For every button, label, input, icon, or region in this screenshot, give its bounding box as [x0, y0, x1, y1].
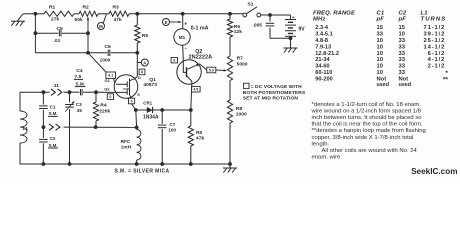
- svg-text:R3: R3: [113, 5, 120, 11]
- svg-text:C3: C3: [76, 102, 82, 107]
- svg-text:90-200: 90-200: [315, 76, 332, 82]
- svg-text:R6: R6: [234, 24, 241, 30]
- svg-text:M: M: [99, 24, 103, 29]
- svg-text:10: 10: [377, 38, 383, 44]
- svg-text:C2: C2: [399, 10, 407, 16]
- svg-text:4.5: 4.5: [193, 87, 198, 91]
- svg-text:12k: 12k: [234, 29, 242, 35]
- svg-text:D: D: [138, 76, 141, 80]
- svg-text:**: **: [443, 77, 449, 84]
- svg-text:9: 9: [173, 58, 175, 62]
- svg-text:R8: R8: [236, 106, 243, 112]
- svg-text:34-60: 34-60: [315, 64, 329, 70]
- svg-text:15: 15: [377, 25, 384, 31]
- svg-text:33: 33: [399, 70, 406, 76]
- svg-text:10: 10: [377, 70, 383, 76]
- svg-text:CR1: CR1: [143, 100, 152, 105]
- svg-text:C1: C1: [50, 104, 56, 109]
- svg-text:4.8-8: 4.8-8: [315, 38, 328, 44]
- svg-text:.005: .005: [253, 22, 263, 28]
- svg-text:33: 33: [399, 64, 406, 70]
- svg-text:enam. wire.: enam. wire.: [312, 154, 343, 160]
- svg-text:60-110: 60-110: [315, 70, 332, 76]
- svg-text:9V: 9V: [299, 26, 306, 32]
- svg-text:39-1/2: 39-1/2: [423, 32, 445, 38]
- svg-text:4.1: 4.1: [108, 74, 113, 78]
- svg-text:used: used: [399, 82, 412, 88]
- svg-text:10: 10: [377, 57, 383, 63]
- svg-text:10: 10: [377, 44, 383, 50]
- svg-text:L1: L1: [23, 126, 29, 131]
- svg-text:33: 33: [399, 51, 406, 57]
- svg-text:2.3-4: 2.3-4: [315, 25, 329, 31]
- svg-text:3.4-5.1: 3.4-5.1: [315, 32, 332, 38]
- svg-text:pF: pF: [376, 17, 385, 23]
- svg-text:33: 33: [399, 44, 406, 50]
- svg-text:5000: 5000: [237, 61, 248, 67]
- svg-text:M1: M1: [179, 35, 186, 40]
- svg-text:MHz: MHz: [313, 17, 325, 23]
- svg-text:C2: C2: [50, 136, 56, 141]
- svg-text:220k: 220k: [99, 108, 110, 114]
- svg-text:= DC VOLTAGE WITH: = DC VOLTAGE WITH: [251, 84, 302, 90]
- svg-text:pF: pF: [398, 17, 407, 23]
- svg-text:G2: G2: [104, 86, 110, 91]
- svg-text:wire wound on a 1/2-inch form: wire wound on a 1/2-inch form spaced 1/8: [311, 109, 422, 115]
- svg-text:0: 0: [109, 95, 111, 99]
- svg-text:25-1/2: 25-1/2: [423, 38, 445, 44]
- svg-text:71-1/2: 71-1/2: [423, 25, 445, 31]
- svg-text:inch between turns. It should: inch between turns. It should be placed …: [312, 115, 423, 121]
- svg-text:1N34A: 1N34A: [143, 114, 159, 120]
- svg-text:+: +: [292, 16, 295, 21]
- svg-text:All other coils are wound with: All other coils are wound with No. 24: [322, 148, 418, 154]
- svg-text:C7: C7: [169, 122, 175, 127]
- svg-text:47k: 47k: [196, 136, 204, 142]
- svg-text:S.M. = SILVER MICA: S.M. = SILVER MICA: [115, 168, 170, 174]
- svg-text:27k: 27k: [51, 17, 59, 23]
- svg-text:*denotes a 1-1/2-turn coil of: *denotes a 1-1/2-turn coil of No. 18 ena…: [312, 102, 422, 108]
- svg-text:used: used: [377, 82, 390, 88]
- svg-text:R5: R5: [196, 130, 203, 136]
- svg-text:10: 10: [377, 51, 383, 57]
- svg-text:**denotes a hairpin loop made: **denotes a hairpin loop made from flash…: [312, 128, 426, 134]
- svg-text:C6: C6: [105, 44, 112, 50]
- svg-text:C4: C4: [76, 68, 83, 74]
- svg-text:0-1 mA: 0-1 mA: [191, 26, 209, 32]
- svg-text:S1: S1: [248, 1, 254, 7]
- svg-text:21-34: 21-34: [315, 57, 330, 63]
- svg-text:C5: C5: [57, 26, 64, 32]
- svg-text:E: E: [165, 20, 168, 25]
- svg-text:R9: R9: [142, 33, 149, 39]
- svg-text:4-1/2: 4-1/2: [428, 57, 446, 63]
- svg-text:S.M.: S.M.: [49, 143, 58, 148]
- svg-text:L1: L1: [421, 10, 428, 16]
- svg-text:35: 35: [77, 108, 83, 113]
- svg-text:12.8-21.2: 12.8-21.2: [315, 51, 339, 57]
- svg-text:Q1: Q1: [149, 77, 156, 83]
- svg-text:BOTH POTENTIOMETERS: BOTH POTENTIOMETERS: [243, 90, 306, 96]
- svg-text:100: 100: [168, 127, 176, 132]
- svg-text:1000: 1000: [100, 57, 111, 63]
- svg-text:S: S: [137, 93, 140, 97]
- svg-text:10: 10: [399, 32, 405, 38]
- svg-text:50k: 50k: [75, 17, 83, 23]
- svg-text:length.: length.: [312, 141, 330, 147]
- svg-text:15: 15: [399, 25, 406, 31]
- svg-text:2-1/2: 2-1/2: [428, 64, 446, 70]
- svg-text:6-1/2: 6-1/2: [428, 51, 446, 57]
- svg-text:1mH: 1mH: [121, 144, 132, 149]
- svg-text:14-1/2: 14-1/2: [423, 44, 445, 50]
- svg-text:copper, 3/8-inch wide X 1-7/8-: copper, 3/8-inch wide X 1-7/8-inch total: [312, 135, 414, 141]
- svg-text:0: 0: [131, 99, 133, 103]
- svg-text:33: 33: [399, 57, 406, 63]
- svg-text:.01: .01: [54, 38, 61, 44]
- svg-text:SET AT MID ROTATION: SET AT MID ROTATION: [243, 96, 299, 102]
- svg-text:1000: 1000: [236, 112, 247, 118]
- svg-text:TURNS: TURNS: [421, 17, 447, 23]
- svg-text:R2: R2: [83, 5, 90, 11]
- svg-text:SeekIC.com: SeekIC.com: [411, 167, 457, 176]
- svg-text:J1: J1: [54, 83, 60, 89]
- svg-text:8: 8: [141, 70, 143, 74]
- svg-text:G1: G1: [105, 78, 111, 83]
- svg-text:R1: R1: [49, 5, 56, 11]
- svg-text:5.9: 5.9: [209, 68, 214, 72]
- svg-text:7.9-13: 7.9-13: [315, 44, 331, 50]
- svg-text:A: A: [143, 60, 146, 65]
- svg-text:R7: R7: [237, 56, 244, 62]
- svg-text:R4: R4: [100, 103, 107, 109]
- svg-text:–: –: [185, 46, 188, 51]
- svg-text:+: +: [184, 22, 187, 28]
- svg-text:S.M.: S.M.: [49, 111, 58, 116]
- svg-text:10: 10: [377, 64, 383, 70]
- svg-text:33: 33: [399, 38, 406, 44]
- svg-text:C1: C1: [377, 10, 385, 16]
- svg-text:47k: 47k: [114, 17, 122, 23]
- svg-text:FREQ. RANGE: FREQ. RANGE: [313, 10, 356, 16]
- svg-text:S.M.: S.M.: [76, 81, 85, 86]
- svg-text:40673: 40673: [143, 82, 157, 88]
- svg-text:2N2222A: 2N2222A: [189, 55, 213, 61]
- svg-text:that the coil is near the top: that the coil is near the top of the coi…: [312, 122, 423, 128]
- svg-text:33: 33: [377, 32, 384, 38]
